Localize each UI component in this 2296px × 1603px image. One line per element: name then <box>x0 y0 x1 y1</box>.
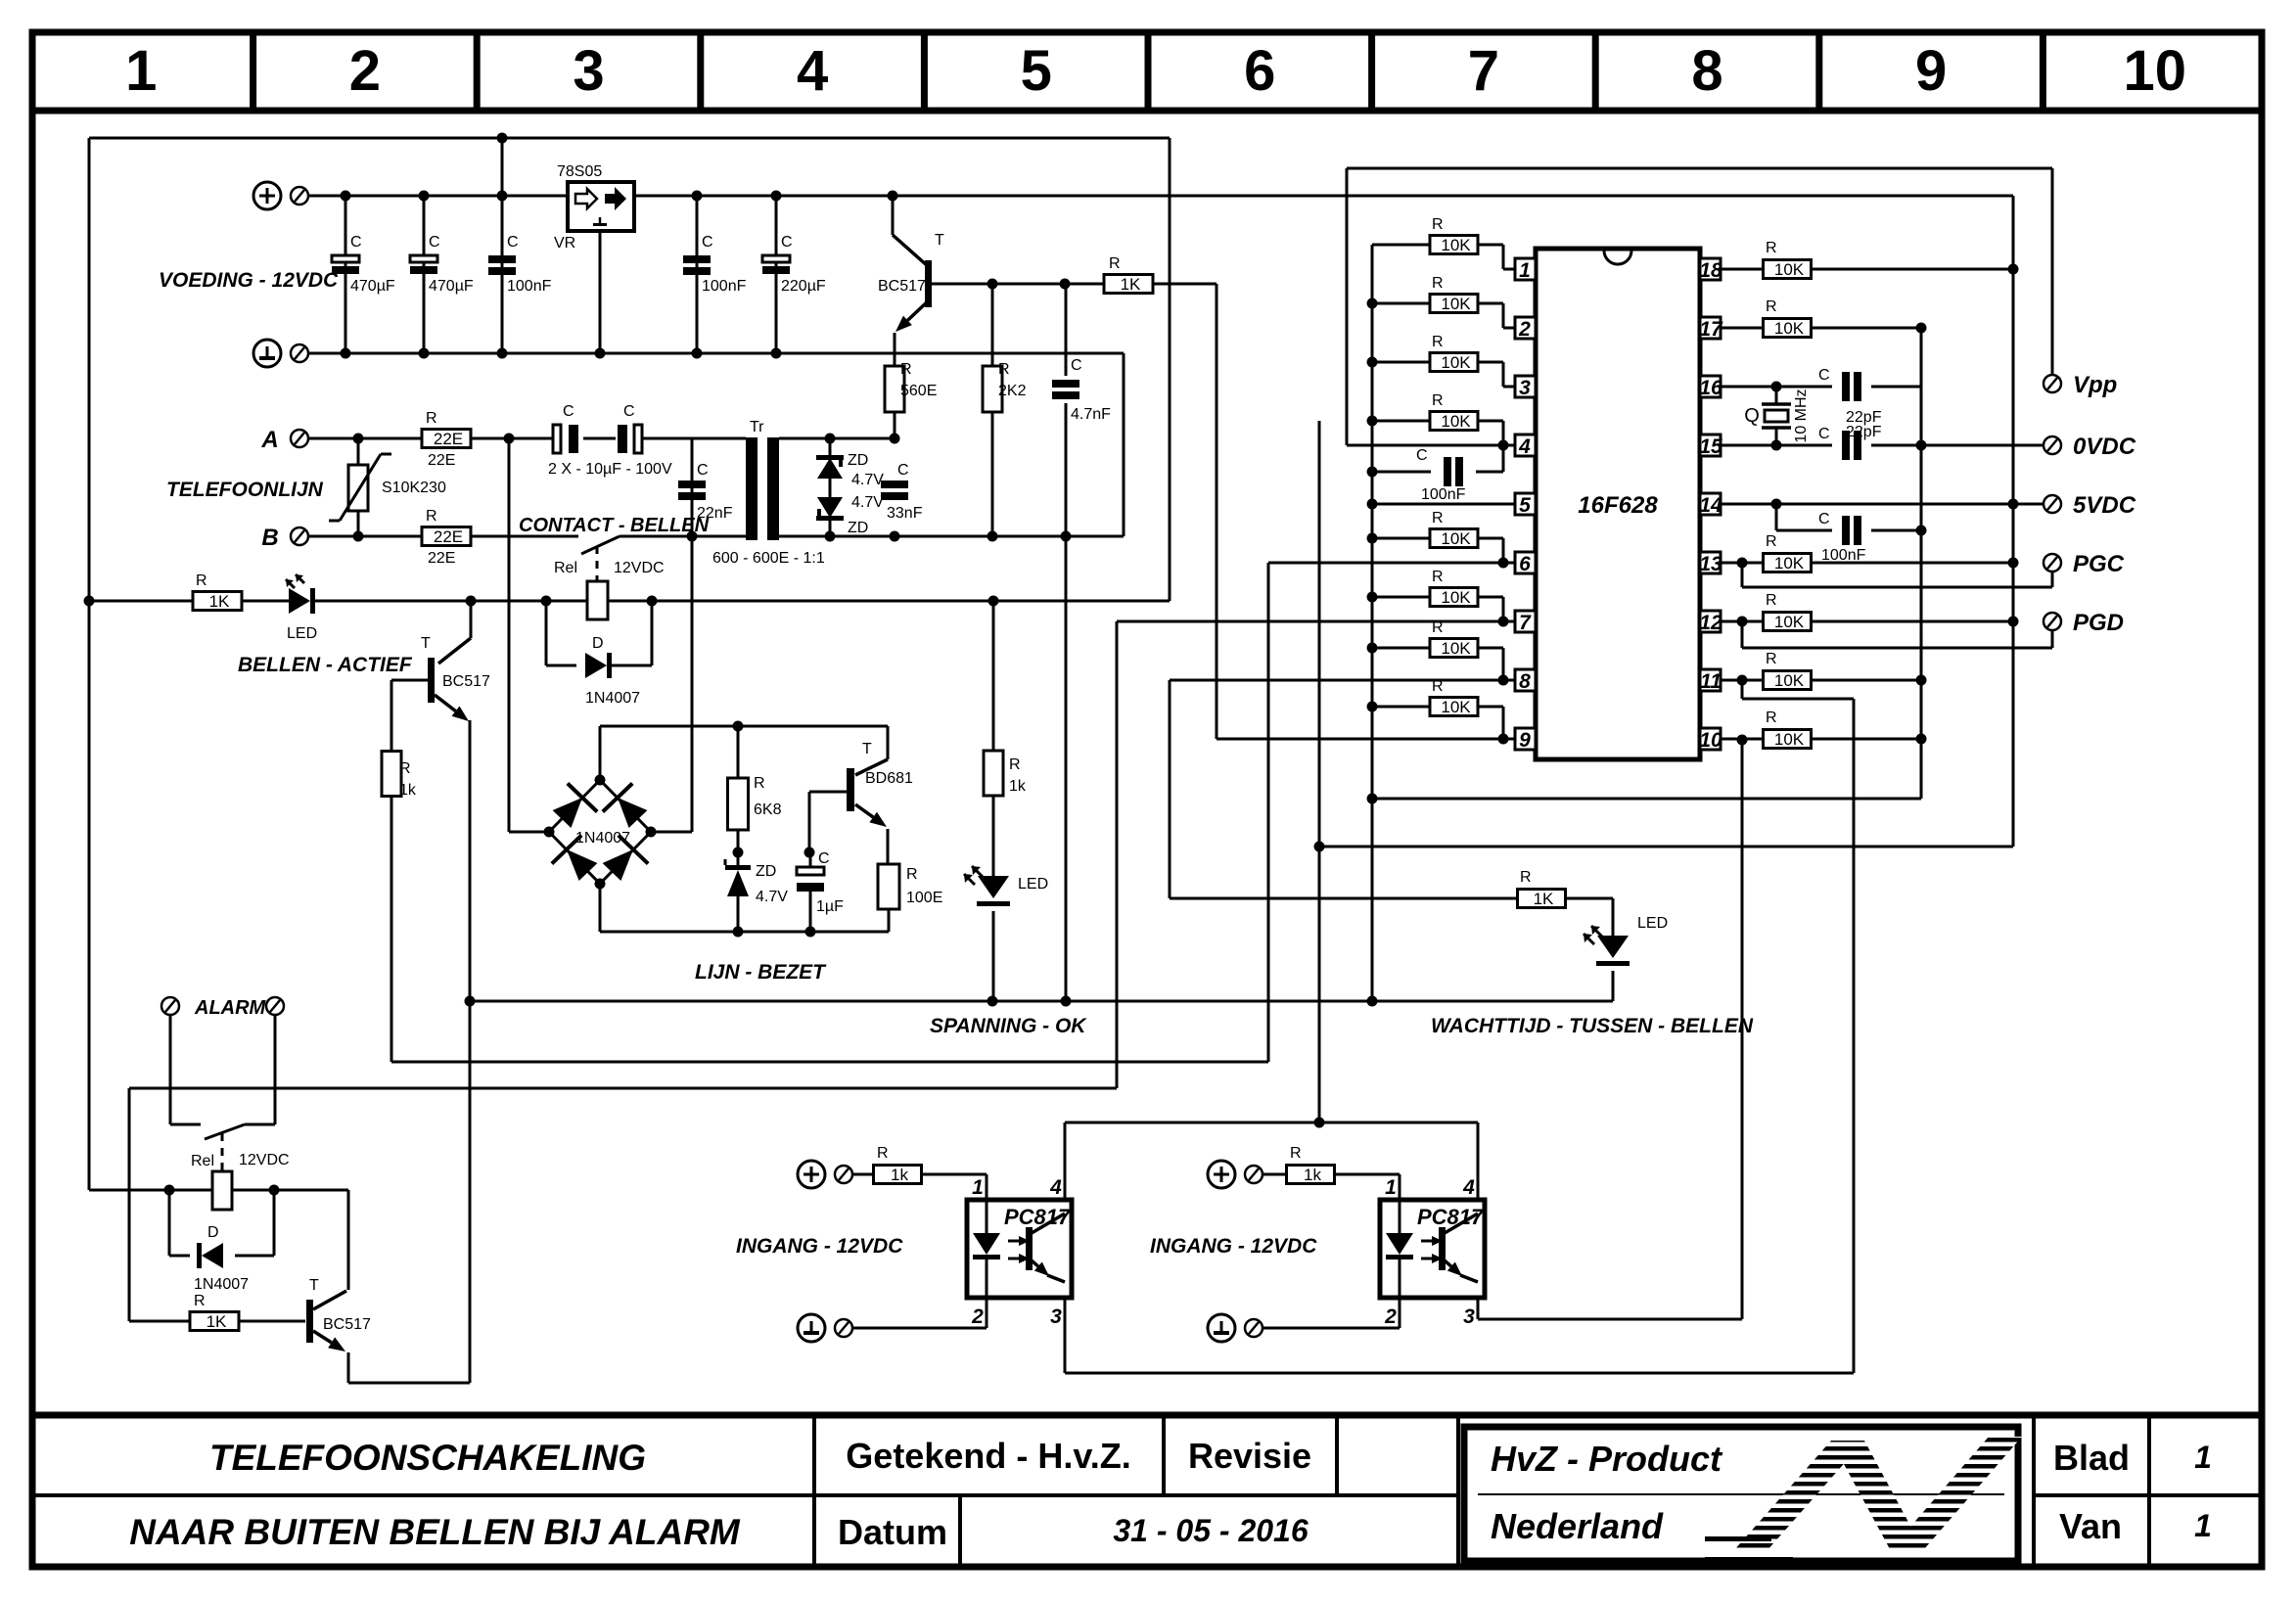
svg-text:Revisie: Revisie <box>1188 1436 1311 1476</box>
svg-text:1N4007: 1N4007 <box>585 690 640 707</box>
svg-text:R: R <box>1766 298 1777 315</box>
svg-text:R: R <box>1766 592 1777 609</box>
wire base net row y=1085 <box>391 1061 1268 1064</box>
svg-text:78S05: 78S05 <box>557 163 602 180</box>
svg-text:10K: 10K <box>1441 236 1471 254</box>
svg-text:22pF: 22pF <box>1846 424 1882 440</box>
svg-text:R: R <box>1520 869 1532 886</box>
capacitor C 100nF (pin4) <box>1372 471 1431 474</box>
svg-text:1: 1 <box>2194 1508 2212 1543</box>
svg-text:0VDC: 0VDC <box>2073 434 2136 460</box>
svg-text:10: 10 <box>2123 39 2186 103</box>
svg-text:6K8: 6K8 <box>754 801 782 818</box>
svg-text:10 MHz: 10 MHz <box>1793 389 1810 442</box>
svg-text:C: C <box>818 850 830 867</box>
svg-text:4.7V: 4.7V <box>756 889 788 905</box>
svg-text:1k: 1k <box>891 1166 908 1184</box>
svg-text:C: C <box>697 462 709 479</box>
svg-text:1µF: 1µF <box>816 898 844 915</box>
wire opto1 pin3 path <box>1064 1300 1067 1373</box>
svg-text:1: 1 <box>125 39 157 103</box>
pin 6 <box>1515 552 1536 573</box>
svg-text:LED: LED <box>1637 915 1668 932</box>
terminal ground 12V <box>253 340 281 367</box>
svg-text:5VDC: 5VDC <box>2073 492 2136 519</box>
svg-text:10K: 10K <box>1441 295 1471 313</box>
svg-text:3: 3 <box>573 39 604 103</box>
svg-text:R: R <box>1432 275 1444 292</box>
terminal + ingang 2 <box>1208 1161 1235 1188</box>
svg-text:C: C <box>1818 367 1830 384</box>
wire opto2 pin3 path <box>1477 1300 1480 1319</box>
wire opto2 pin4 drop <box>1477 1122 1480 1200</box>
varistor S10K230 <box>357 438 360 465</box>
svg-text:8: 8 <box>1691 39 1722 103</box>
svg-text:18: 18 <box>1699 259 1722 282</box>
svg-text:R: R <box>1109 255 1121 272</box>
resistor R 1K (LED bellen-actief) <box>193 592 242 611</box>
pin 3 <box>1515 376 1536 397</box>
wire opto1 pin4 drop <box>1064 1122 1067 1200</box>
svg-text:Rel: Rel <box>191 1153 214 1169</box>
svg-text:10K: 10K <box>1441 353 1471 372</box>
pin 16 <box>1700 376 1721 397</box>
svg-text:C: C <box>897 462 909 479</box>
pin 8 <box>1515 669 1536 691</box>
svg-text:Van: Van <box>2059 1506 2122 1546</box>
wire pin10 riser x=1780 <box>1741 740 1744 1319</box>
relay Rel 12VDC (alarm) <box>212 1171 232 1210</box>
svg-text:1K: 1K <box>209 592 230 611</box>
svg-text:R: R <box>906 866 918 883</box>
svg-text:1N4007: 1N4007 <box>194 1276 249 1293</box>
svg-text:9: 9 <box>1915 39 1947 103</box>
svg-text:4: 4 <box>797 39 828 103</box>
transistor T BD681 <box>887 726 890 759</box>
pin 14 <box>1700 493 1721 515</box>
pin 12 <box>1700 611 1721 632</box>
relay Rel 12VDC (contact-bellen) <box>587 581 608 619</box>
pin 15 <box>1700 435 1721 456</box>
svg-text:C: C <box>1818 426 1830 442</box>
svg-text:17: 17 <box>1699 318 1723 341</box>
svg-text:R: R <box>194 1293 206 1309</box>
svg-text:6: 6 <box>1244 39 1275 103</box>
svg-text:10K: 10K <box>1441 639 1471 658</box>
wire ground bus x=1963 <box>1920 328 1923 799</box>
svg-text:BELLEN - ACTIEF: BELLEN - ACTIEF <box>238 654 413 676</box>
pin 7 <box>1515 611 1536 632</box>
capacitor C5 220uF <box>775 196 778 353</box>
svg-text:C: C <box>563 403 574 420</box>
svg-text:Getekend - H.v.Z.: Getekend - H.v.Z. <box>846 1436 1130 1476</box>
wire +12V/5V rail y=200 <box>299 195 568 198</box>
wire ground row y=1023 <box>470 1000 1613 1003</box>
resistor R 10K (pin 7) <box>1372 596 1430 599</box>
svg-text:1k: 1k <box>399 782 417 799</box>
svg-text:15: 15 <box>1699 435 1722 458</box>
svg-text:R: R <box>1009 756 1021 773</box>
svg-text:C: C <box>1818 511 1830 527</box>
capacitor C 100nF (5V) <box>1775 504 1778 530</box>
wire pin8/WACHTTIJD riser x=1195 <box>1169 680 1171 898</box>
terminal gnd ingang 1 <box>798 1314 825 1342</box>
wire opto 5V frame top y=1147 <box>1065 1122 1478 1124</box>
svg-text:T: T <box>309 1277 319 1294</box>
transistor T BC517 (alarm) <box>306 1300 313 1343</box>
terminal + 12V <box>253 182 281 209</box>
wire pin6 net x=1296 <box>1267 563 1270 1062</box>
wire left rail x=91 <box>88 138 91 1190</box>
wire pin7 net row y=1112 <box>129 1087 1117 1090</box>
wire PGD link <box>1741 621 1744 648</box>
capacitor C 33nF <box>881 481 908 488</box>
svg-text:C: C <box>1416 447 1428 464</box>
wire ground row y=816 <box>1372 798 1921 801</box>
resistor R 10K (pin 10) <box>1721 738 1764 741</box>
wire bridge top to LIJN-BEZET row <box>599 726 602 780</box>
svg-text:22E: 22E <box>434 430 463 448</box>
wire pin9 riser x=1243 <box>1216 284 1218 739</box>
header row <box>32 108 2262 114</box>
svg-text:4.7nF: 4.7nF <box>1071 406 1111 423</box>
title block frame <box>32 1412 2262 1419</box>
wire pin11 stub <box>1741 680 1744 699</box>
svg-text:INGANG - 12VDC: INGANG - 12VDC <box>1150 1235 1317 1258</box>
svg-text:INGANG - 12VDC: INGANG - 12VDC <box>736 1235 903 1258</box>
svg-text:ZD: ZD <box>848 520 868 536</box>
wire pin15 row / crystal bottom <box>1721 444 1832 447</box>
resistor R 560E <box>885 366 904 412</box>
wire ALARM relay row y=1216 <box>89 1189 212 1192</box>
svg-text:22nF: 22nF <box>697 505 733 522</box>
wire top loop y=141 <box>89 137 1170 140</box>
svg-text:Tr: Tr <box>750 419 764 435</box>
svg-text:10K: 10K <box>1774 260 1805 279</box>
svg-text:R: R <box>399 760 411 777</box>
bridge rectifier 1N4007 <box>549 780 600 832</box>
optocoupler PC817 #2 <box>1380 1200 1485 1298</box>
transistor T BC517 top <box>892 196 895 235</box>
svg-text:VR: VR <box>554 235 575 252</box>
LED spanning-ok <box>978 876 1009 898</box>
pin 13 <box>1700 552 1721 573</box>
terminal 5VDC <box>2043 495 2061 513</box>
svg-text:VOEDING - 12VDC: VOEDING - 12VDC <box>159 269 339 292</box>
pin 4 <box>1515 435 1536 456</box>
svg-text:LED: LED <box>287 625 317 642</box>
svg-text:100nF: 100nF <box>507 278 552 295</box>
svg-text:4: 4 <box>1049 1176 1062 1199</box>
svg-text:1: 1 <box>1519 259 1531 282</box>
svg-text:R: R <box>877 1145 889 1162</box>
svg-text:3: 3 <box>1463 1305 1475 1328</box>
wire pin5 to bus <box>1372 503 1515 506</box>
svg-text:R: R <box>1766 240 1777 256</box>
wire pin4 long (Vpp) <box>1347 444 1515 447</box>
wire 5V bus x=2057 <box>2012 196 2015 847</box>
svg-text:R: R <box>1766 710 1777 726</box>
pin 1 <box>1515 258 1536 280</box>
resistor R 10K (pin 13) <box>1721 562 1764 565</box>
svg-text:BC517: BC517 <box>442 673 490 690</box>
svg-text:12VDC: 12VDC <box>239 1152 290 1168</box>
svg-text:R: R <box>1432 216 1444 233</box>
svg-text:11: 11 <box>1700 670 1722 693</box>
svg-text:R: R <box>998 361 1010 378</box>
svg-text:2K2: 2K2 <box>998 383 1027 399</box>
capacitor C 22pF (top) <box>1842 372 1850 401</box>
svg-text:1N4007: 1N4007 <box>575 830 630 847</box>
terminal PGC <box>2043 554 2061 572</box>
optocoupler PC817 #1 <box>967 1200 1072 1298</box>
resistor R 6K8 <box>737 726 740 778</box>
svg-text:ZD: ZD <box>756 863 776 880</box>
wire Vpp to MCLR x=1376 <box>1346 168 1349 445</box>
svg-text:2: 2 <box>349 39 381 103</box>
svg-text:CONTACT - BELLEN: CONTACT - BELLEN <box>519 515 710 536</box>
resistor R 10K (pin 17) <box>1721 327 1764 330</box>
wire -rail drop x=1148 to B row <box>1123 353 1125 536</box>
switch contact arm CONTACT-BELLEN <box>581 536 620 554</box>
svg-text:13: 13 <box>1699 553 1722 575</box>
svg-text:TELEFOONLIJN: TELEFOONLIJN <box>166 479 324 501</box>
svg-text:R: R <box>196 572 207 589</box>
wire emitter bus x=480 <box>469 720 472 1383</box>
svg-text:R: R <box>754 775 765 792</box>
svg-text:560E: 560E <box>900 383 937 399</box>
svg-text:ALARM: ALARM <box>194 997 267 1019</box>
svg-text:22E: 22E <box>434 527 463 546</box>
svg-text:1K: 1K <box>1121 275 1141 294</box>
svg-text:BC517: BC517 <box>878 278 926 295</box>
svg-text:ZD: ZD <box>848 452 868 469</box>
svg-text:6: 6 <box>1519 553 1531 575</box>
svg-text:7: 7 <box>1468 39 1499 103</box>
resistor R 22E (B) <box>422 527 471 546</box>
svg-text:T: T <box>421 635 431 652</box>
svg-text:33nF: 33nF <box>887 505 923 522</box>
capacitor C 22pF (bottom) <box>1842 431 1850 460</box>
svg-text:1: 1 <box>972 1176 984 1199</box>
svg-text:Rel: Rel <box>554 560 577 576</box>
svg-text:R: R <box>1432 392 1444 409</box>
wire 0V rail y=361 <box>299 352 1124 355</box>
wire pin6 long <box>1268 562 1515 565</box>
svg-text:T: T <box>862 741 872 757</box>
resistor R 10K (pin 18) <box>1721 268 1764 271</box>
svg-text:R: R <box>1432 334 1444 350</box>
transistor T BC517 (bellen-actief) <box>470 601 473 638</box>
terminal PGD <box>2043 613 2061 630</box>
relay dashed link <box>596 546 599 581</box>
wire pin7 net x=132 drop <box>128 1088 131 1321</box>
resistor R 10K (pin 3) <box>1372 361 1430 364</box>
svg-text:31 - 05 - 2016: 31 - 05 - 2016 <box>1113 1513 1308 1548</box>
pin 2 <box>1515 317 1536 339</box>
wire pin16 row / crystal top <box>1721 386 1832 389</box>
svg-text:470µF: 470µF <box>350 278 395 295</box>
svg-text:470µF: 470µF <box>429 278 474 295</box>
wire B line y=548 <box>299 535 578 538</box>
resistor R 1K (Q3 base) <box>190 1312 239 1331</box>
zener diodes ZD 4.7V pair <box>829 438 832 456</box>
pin 11 <box>1700 669 1721 691</box>
wire ALARM flyback loop <box>168 1190 171 1256</box>
resistor R 1k (Q2 base) <box>390 680 393 751</box>
wire LED row riser x=1195 to top loop <box>1169 138 1171 601</box>
IC U1 16F628 <box>1536 249 1700 759</box>
wire pin7 riser x=1141 <box>1116 621 1119 1088</box>
svg-text:10K: 10K <box>1774 554 1805 572</box>
svg-text:7: 7 <box>1519 612 1532 634</box>
wire Vpp drop x=2097 <box>2051 168 2054 375</box>
svg-text:16: 16 <box>1699 377 1722 399</box>
svg-text:HvZ - Product: HvZ - Product <box>1491 1439 1723 1479</box>
svg-text:10K: 10K <box>1441 529 1471 548</box>
svg-text:10K: 10K <box>1441 588 1471 607</box>
svg-text:Q: Q <box>1744 405 1760 427</box>
resistor R 10K (pin 1) <box>1372 244 1430 247</box>
svg-text:Vpp: Vpp <box>2073 372 2117 398</box>
resistor R 1k (spanning-ok) <box>992 601 995 751</box>
svg-text:S10K230: S10K230 <box>382 480 446 496</box>
wire relay/diode D loop <box>545 601 548 665</box>
crystal Q 10MHz <box>1775 387 1778 404</box>
svg-text:C: C <box>429 234 440 251</box>
svg-text:NAAR BUITEN BELLEN BIJ ALARM: NAAR BUITEN BELLEN BIJ ALARM <box>129 1512 741 1552</box>
capacitor C2 470uF <box>423 196 426 353</box>
svg-text:100nF: 100nF <box>702 278 747 295</box>
svg-text:PGD: PGD <box>2073 610 2124 636</box>
capacitor C1 470uF <box>344 196 347 353</box>
svg-text:R: R <box>1766 651 1777 667</box>
svg-text:R: R <box>1432 569 1444 585</box>
svg-text:WACHTTIJD - TUSSEN - BELLEN: WACHTTIJD - TUSSEN - BELLEN <box>1431 1015 1754 1037</box>
svg-text:Nederland: Nederland <box>1491 1506 1664 1546</box>
svg-text:Datum: Datum <box>838 1512 947 1552</box>
svg-text:LED: LED <box>1018 876 1048 893</box>
svg-text:10K: 10K <box>1774 671 1805 690</box>
logo box HvZ-Product Nederland <box>1464 1427 2018 1561</box>
voltage regulator VR 78S05 <box>568 182 634 231</box>
pin 17 <box>1700 317 1721 339</box>
svg-text:C: C <box>350 234 362 251</box>
svg-text:22E: 22E <box>428 550 455 567</box>
pin 9 <box>1515 728 1536 750</box>
svg-text:16F628: 16F628 <box>1578 492 1658 519</box>
svg-text:10K: 10K <box>1774 730 1805 749</box>
resistor R 10K (pin 2) <box>1372 302 1430 305</box>
svg-text:12VDC: 12VDC <box>614 560 665 576</box>
svg-text:100E: 100E <box>906 890 942 906</box>
svg-text:8: 8 <box>1519 670 1531 693</box>
svg-text:2: 2 <box>971 1305 984 1328</box>
resistor R 1K collector (to pin9) <box>1104 275 1153 294</box>
switch arm alarm relay contact <box>205 1124 245 1139</box>
svg-text:10: 10 <box>1699 729 1722 752</box>
svg-text:T: T <box>935 232 944 249</box>
svg-text:3: 3 <box>1519 377 1531 399</box>
svg-text:1k: 1k <box>1304 1166 1321 1184</box>
wire BC517 Q3 collector riser <box>347 1190 350 1290</box>
svg-text:C: C <box>1071 357 1082 374</box>
svg-text:600 - 600E - 1:1: 600 - 600E - 1:1 <box>712 550 825 567</box>
wire BC517 Q3 emitter path <box>347 1352 350 1383</box>
capacitor C3 100nF <box>501 138 504 353</box>
svg-text:TELEFOONSCHAKELING: TELEFOONSCHAKELING <box>209 1438 646 1478</box>
resistor R 100E <box>878 864 899 909</box>
svg-text:PGC: PGC <box>2073 551 2125 577</box>
wire pin7 long <box>1117 620 1515 623</box>
resistor R 2K2 <box>991 284 994 366</box>
svg-text:5: 5 <box>1519 494 1531 517</box>
svg-text:R: R <box>426 410 437 427</box>
svg-text:22E: 22E <box>428 452 455 469</box>
wire pin8 long <box>1170 679 1515 682</box>
resistor R 22E (A) <box>422 430 471 448</box>
wire MCLR pull row x=1348 <box>1318 421 1321 1122</box>
svg-text:1K: 1K <box>1534 890 1554 908</box>
wire resistor bus x=1402 <box>1371 245 1374 1001</box>
svg-text:1: 1 <box>1385 1176 1397 1199</box>
capacitor 2x10uF-100V <box>553 425 561 453</box>
junction dots <box>497 133 508 144</box>
resistor R 10K (pin 8) <box>1372 647 1430 650</box>
svg-text:1k: 1k <box>1009 778 1027 795</box>
resistor R 1K (wachttijd) <box>1518 890 1566 908</box>
svg-text:1K: 1K <box>207 1312 227 1331</box>
wire LED row y=614 <box>89 600 193 603</box>
svg-text:BD681: BD681 <box>865 770 913 787</box>
svg-text:R: R <box>900 361 912 378</box>
svg-text:14: 14 <box>1699 494 1722 517</box>
svg-text:BC517: BC517 <box>323 1316 371 1333</box>
svg-text:100nF: 100nF <box>1821 547 1866 564</box>
pin 10 <box>1700 728 1721 750</box>
terminal Vpp <box>2043 375 2061 392</box>
svg-text:SPANNING - OK: SPANNING - OK <box>930 1015 1087 1037</box>
wire A to bridge x=520 <box>508 438 511 832</box>
svg-text:2: 2 <box>1384 1305 1397 1328</box>
svg-text:C: C <box>623 403 635 420</box>
wire PGC link <box>1741 563 1744 587</box>
svg-text:12: 12 <box>1699 612 1722 634</box>
svg-text:4.7V: 4.7V <box>851 472 884 488</box>
svg-text:10K: 10K <box>1441 698 1471 716</box>
wire 5V bus bottom row y=865 <box>1319 846 2013 848</box>
svg-text:5: 5 <box>1021 39 1052 103</box>
svg-text:4: 4 <box>1518 435 1531 458</box>
LED wachttijd <box>1597 936 1629 958</box>
terminal ALARM left <box>161 997 179 1015</box>
svg-text:4: 4 <box>1462 1176 1475 1199</box>
svg-text:LIJN - BEZET: LIJN - BEZET <box>695 961 827 984</box>
wire base row Q1 <box>992 283 1105 286</box>
pin 5 <box>1515 493 1536 515</box>
wire B to bridge x=707 <box>691 536 694 832</box>
resistor R 10K (pin 11) <box>1721 679 1764 682</box>
svg-text:3: 3 <box>1050 1305 1062 1328</box>
wire alarm terminals <box>169 1015 172 1124</box>
LED bellen-actief <box>289 588 310 614</box>
wire opto2 pin2 <box>1399 1300 1401 1328</box>
capacitor C 4.7nF <box>1065 284 1068 376</box>
wire pin9 long <box>1217 738 1515 741</box>
svg-text:R: R <box>1766 533 1777 550</box>
svg-text:10K: 10K <box>1774 319 1805 338</box>
capacitor C 1uF <box>809 852 812 867</box>
